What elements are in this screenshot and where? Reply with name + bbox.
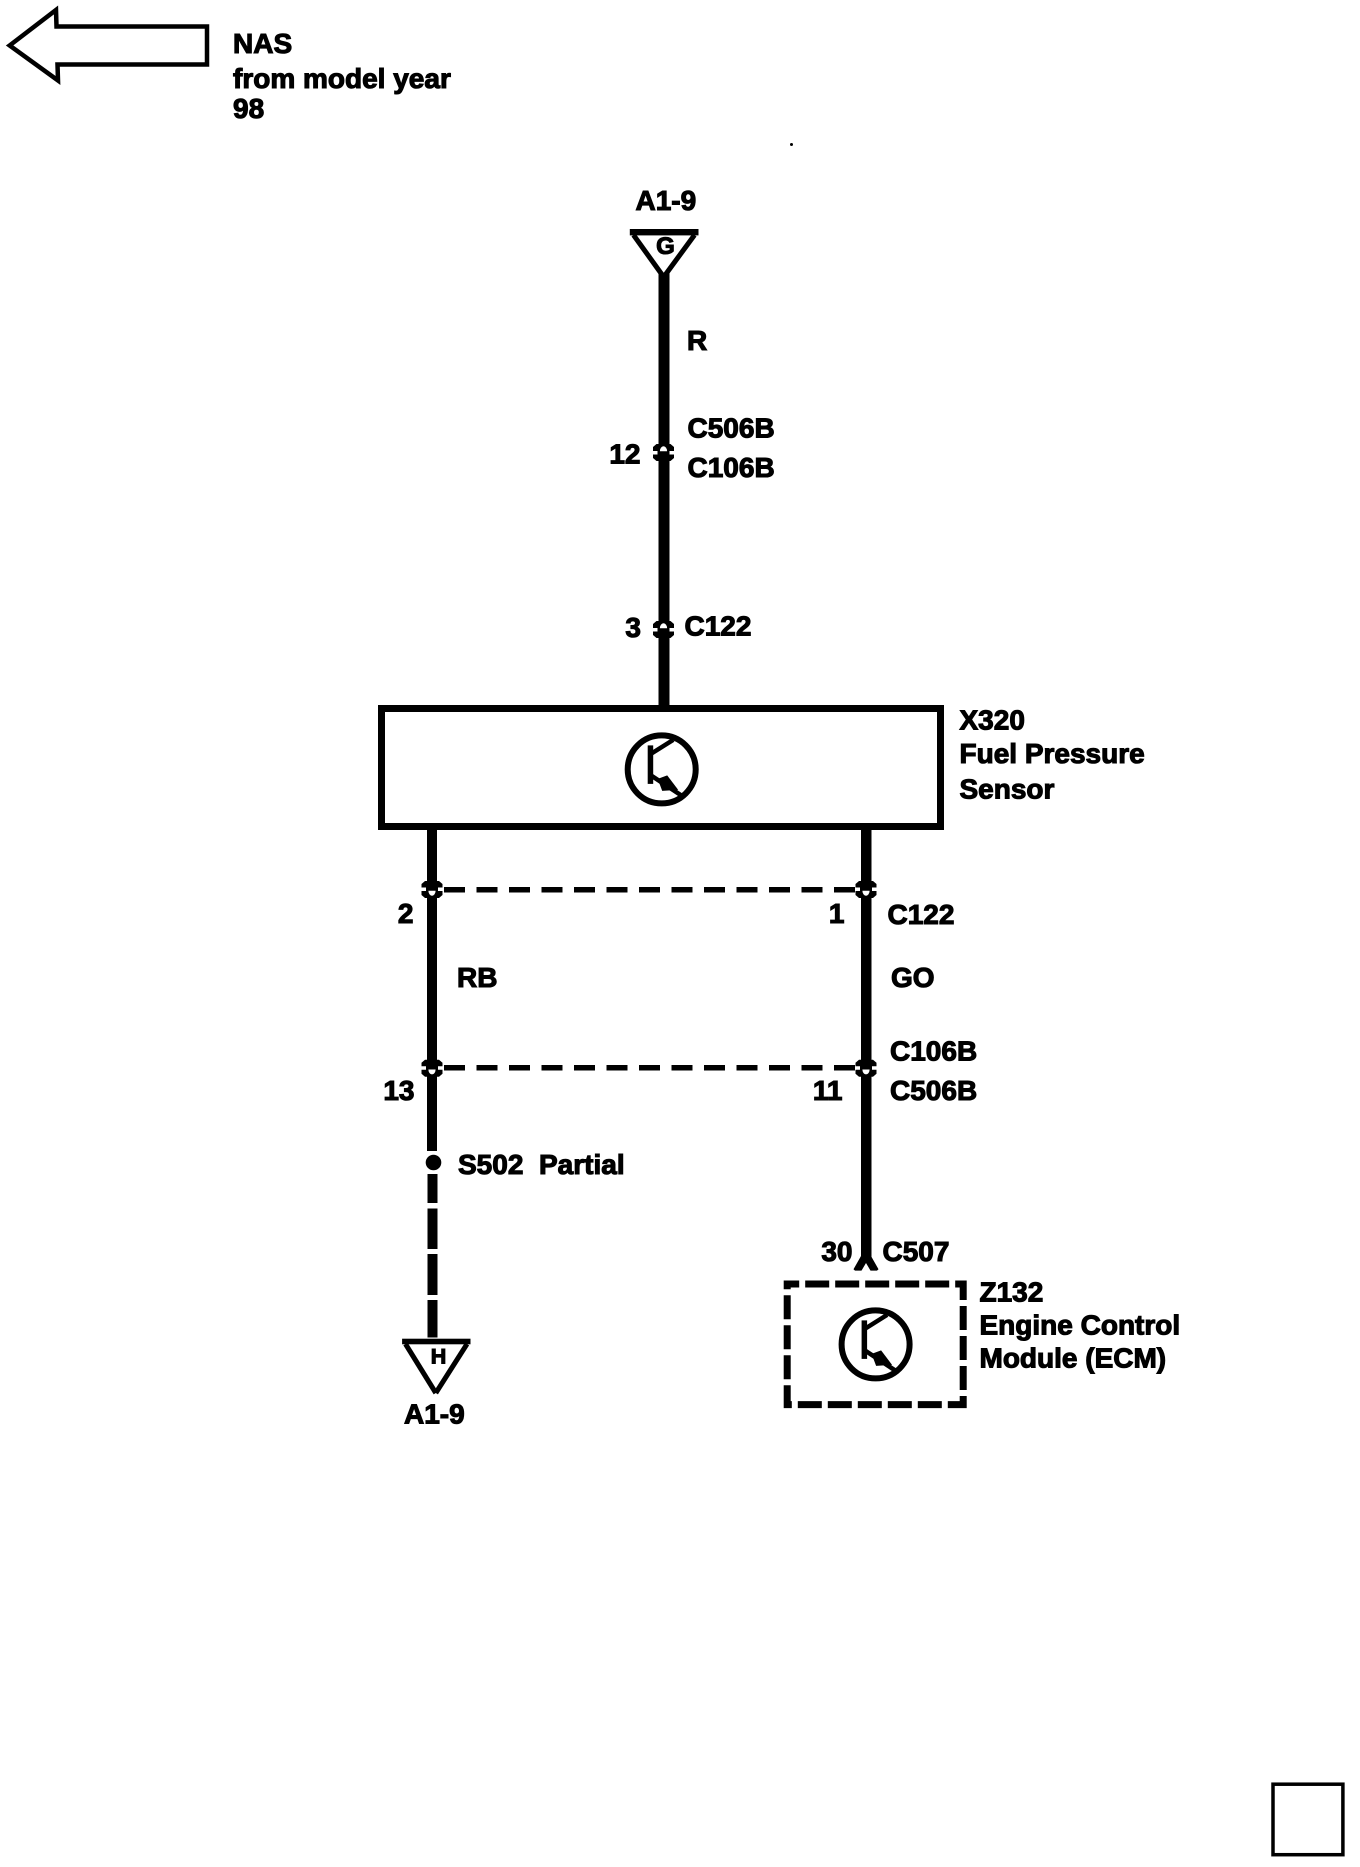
wire dashed vertical (S502 to ground H) [428, 1174, 438, 1338]
svg-text:C506B: C506B [688, 413, 775, 444]
svg-text:C507: C507 [883, 1236, 950, 1267]
svg-text:H: H [431, 1345, 447, 1369]
svg-text:13: 13 [383, 1075, 414, 1106]
svg-text:11: 11 [813, 1075, 843, 1106]
svg-text:3: 3 [625, 612, 641, 643]
wire right vertical (box to pin 30) [861, 826, 872, 1259]
transistor symbol inside X320 [628, 735, 696, 803]
pin 30 terminal fork [854, 1250, 879, 1271]
svg-text:12: 12 [609, 439, 640, 470]
dashed harness line C106B/C506B [444, 1065, 856, 1071]
ground triangle G (A1-9) [630, 229, 699, 277]
connector pin 13 symbol [422, 1060, 443, 1077]
svg-text:Sensor: Sensor [960, 774, 1055, 805]
ground triangle H (A1-9) [402, 1339, 470, 1393]
svg-text:Fuel Pressure: Fuel Pressure [960, 738, 1145, 769]
svg-text:RB: RB [457, 962, 497, 993]
svg-text:98: 98 [233, 93, 264, 124]
svg-text:30: 30 [821, 1236, 852, 1267]
svg-text:S502: S502 [458, 1149, 523, 1180]
splice S502 junction dot [426, 1155, 442, 1171]
page corner square [1273, 1784, 1343, 1855]
svg-text:G: G [656, 233, 675, 260]
svg-text:NAS: NAS [233, 28, 292, 59]
svg-text:Engine Control: Engine Control [980, 1310, 1181, 1341]
svg-text:2: 2 [398, 898, 414, 929]
svg-text:Module (ECM): Module (ECM) [980, 1343, 1167, 1374]
svg-text:from model year: from model year [233, 63, 451, 94]
transistor symbol inside ECM [842, 1310, 910, 1378]
connector C506B/C106B pin 12 symbol [653, 444, 674, 461]
svg-text:C122: C122 [888, 899, 955, 930]
svg-text:A1-9: A1-9 [636, 185, 697, 216]
svg-text:C122: C122 [685, 611, 752, 642]
svg-text:GO: GO [891, 962, 935, 993]
connector pin 11 symbol [856, 1060, 877, 1077]
NAS left-pointing arrow [10, 10, 207, 81]
svg-text:1: 1 [829, 898, 845, 929]
svg-text:C506B: C506B [890, 1075, 977, 1106]
connector C122 pin 1 symbol [856, 881, 877, 898]
svg-text:C106B: C106B [688, 452, 775, 483]
svg-text:X320: X320 [960, 705, 1025, 736]
wire top vertical (triangle G to X320 box) [659, 273, 670, 708]
svg-text:C106B: C106B [890, 1036, 977, 1067]
speck [790, 143, 793, 146]
svg-text:Z132: Z132 [980, 1277, 1044, 1308]
dashed harness line C122 [444, 887, 856, 893]
svg-text:Partial: Partial [539, 1149, 625, 1180]
connector C122 pin 3 symbol [653, 621, 674, 638]
svg-text:R: R [687, 325, 707, 356]
svg-text:A1-9: A1-9 [404, 1399, 465, 1430]
connector C122 pin 2 symbol [422, 881, 443, 898]
wire left vertical (box to S502) [427, 826, 437, 1151]
X320 fuel pressure sensor box [382, 709, 941, 827]
Z132 ECM dashed box [787, 1284, 963, 1405]
